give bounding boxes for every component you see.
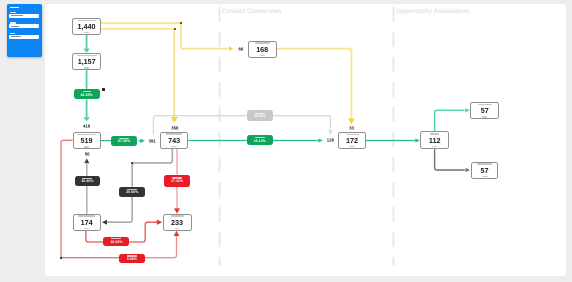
pill 30.46 dark — [75, 176, 100, 186]
arrow into 112 — [415, 138, 420, 142]
wire mint 112 to 57 top — [435, 110, 465, 131]
gray arrow down at 126 — [328, 130, 332, 134]
pill 26.16 light gray — [247, 110, 273, 120]
edge label 56 — [85, 151, 90, 156]
column header Contact Conversion — [222, 8, 282, 15]
arrow into 66 label — [229, 46, 233, 51]
node 1157 — [72, 53, 101, 70]
wire mint 1440 to 1157 — [86, 35, 88, 49]
wire green 172 to 112 — [366, 140, 415, 142]
arrow into 56 label — [84, 158, 89, 163]
elbow dot yellow 1 — [180, 22, 182, 24]
arrow into 174 right — [102, 220, 107, 225]
pill 16.13 green — [247, 135, 273, 145]
wire red 16.09 pill to 233 left — [129, 222, 157, 242]
pill 9.06 red — [119, 254, 145, 264]
wire red 743 to 17.41 pill — [176, 149, 178, 175]
node 168 — [248, 41, 277, 58]
arrow into 358 label — [171, 117, 178, 123]
node 743 — [160, 132, 188, 149]
wire light gray 743 to gray pill — [153, 116, 247, 135]
wire gray 743 to 20.06 pill — [132, 149, 172, 187]
wire mint 1157 to pill — [86, 70, 88, 89]
pill 81.65 green — [74, 89, 101, 100]
edge label 33 — [349, 126, 354, 131]
arrow into 233 top — [174, 208, 180, 213]
dashed column separator 2 — [393, 7, 395, 266]
arrow into 1157 — [83, 49, 90, 53]
wire yellow 1440 to 743 — [101, 29, 175, 117]
wire mint pill to 519 — [86, 100, 88, 118]
handle dot near pill — [102, 88, 105, 91]
node 233 — [163, 214, 192, 231]
arrow into 233 left — [157, 220, 162, 225]
node 112 — [420, 131, 449, 149]
wire yellow 168 to 172 — [277, 49, 352, 119]
filter panel — [7, 4, 42, 57]
wire gray pill to 56 label — [86, 164, 88, 176]
pill 20.06 dark — [119, 187, 145, 197]
edge label 66 — [239, 46, 244, 51]
node 519 — [73, 132, 101, 149]
pill 16.09 red — [103, 237, 129, 246]
arrow into 126 label — [318, 138, 323, 142]
arrow into 33 label — [348, 119, 355, 125]
wire green 743 to pill 16 — [188, 140, 247, 142]
arrow glyph after pill 67 — [139, 140, 141, 142]
node 172 — [338, 132, 366, 149]
wire red 519 to 9.06 pill — [61, 140, 119, 257]
node 57 lost — [471, 162, 499, 179]
wire gray 112 to 57 bottom — [435, 149, 465, 170]
edge label 126 — [327, 138, 334, 143]
wire yellow 1440 to 168 — [101, 23, 229, 49]
node 1440 — [72, 18, 100, 35]
wire green pill 16 to 126 — [273, 140, 319, 142]
edge label 391 — [149, 138, 156, 143]
edge label 358 — [171, 125, 178, 130]
wire gray 174 to 30.46 pill — [86, 186, 88, 214]
elbow dot gray — [131, 162, 133, 164]
pill 67.36 green — [111, 136, 137, 146]
wire red 174 to 16.09 pill — [86, 231, 104, 242]
elbow dot yellow 2 — [174, 28, 176, 30]
arrow into 57 top — [465, 108, 470, 112]
node 174 — [73, 214, 101, 231]
elbow dot red — [60, 257, 62, 259]
node 57 won — [470, 102, 499, 119]
arrow into 57 bottom — [466, 168, 471, 172]
dashed column separator 1 — [219, 7, 221, 266]
arrow into 233 bottom — [174, 231, 180, 236]
pill 17.41 red — [164, 175, 190, 187]
wire red 9.06 pill to 233 bottom — [145, 236, 177, 258]
wire green 519 to pill 67 — [101, 140, 111, 142]
arrow into 416 label — [83, 117, 90, 121]
wire gray pill to 174 — [107, 197, 132, 223]
wire light gray pill to down arrow at 126 — [273, 116, 331, 130]
column header Opportunity Association — [396, 8, 469, 15]
edge label 416 — [83, 124, 90, 129]
wire red pill to 233 — [176, 187, 178, 209]
